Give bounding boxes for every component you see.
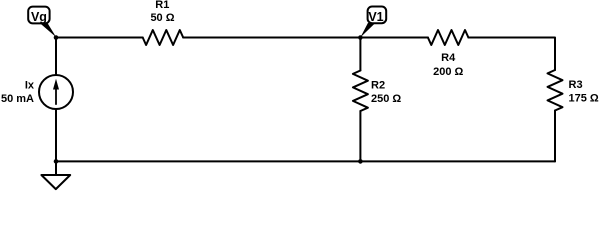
node label Vg box <box>28 7 49 24</box>
svg-text:50 Ω: 50 Ω <box>150 12 174 24</box>
svg-text:250 Ω: 250 Ω <box>371 93 401 105</box>
wire middle bottom <box>359 111 361 161</box>
svg-text:R3: R3 <box>569 79 583 91</box>
wire top rail middle <box>183 37 428 39</box>
node label Vg pointer <box>40 23 56 37</box>
svg-text:R1: R1 <box>155 0 169 11</box>
node label V1 box <box>368 7 387 24</box>
svg-text:Ix: Ix <box>25 80 35 92</box>
wire top rail right <box>468 38 555 71</box>
svg-text:200 Ω: 200 Ω <box>433 66 463 78</box>
resistor R2 <box>353 71 368 112</box>
current source arrow <box>53 79 59 105</box>
wire left bottom <box>55 109 57 175</box>
resistor R4 <box>428 30 469 45</box>
ground <box>41 175 70 189</box>
wire bottom rail <box>56 160 555 162</box>
resistor R1 <box>143 30 184 45</box>
resistor R3 <box>548 70 563 111</box>
wire right down <box>554 111 556 162</box>
svg-text:Vg: Vg <box>31 10 47 24</box>
svg-text:R4: R4 <box>441 52 456 64</box>
svg-text:175 Ω: 175 Ω <box>569 93 599 105</box>
wire left top <box>55 38 57 76</box>
svg-text:50 mA: 50 mA <box>1 93 34 105</box>
current source Ix <box>39 75 73 109</box>
wire middle top <box>359 38 361 71</box>
wire top rail left <box>56 37 143 39</box>
junction dot bottom left <box>54 159 59 164</box>
node label V1 pointer <box>360 23 375 37</box>
node dot V1 <box>358 35 363 40</box>
svg-text:V1: V1 <box>368 10 383 24</box>
node dot Vg <box>54 35 59 40</box>
junction dot bottom middle <box>358 159 363 164</box>
svg-text:R2: R2 <box>371 79 385 91</box>
